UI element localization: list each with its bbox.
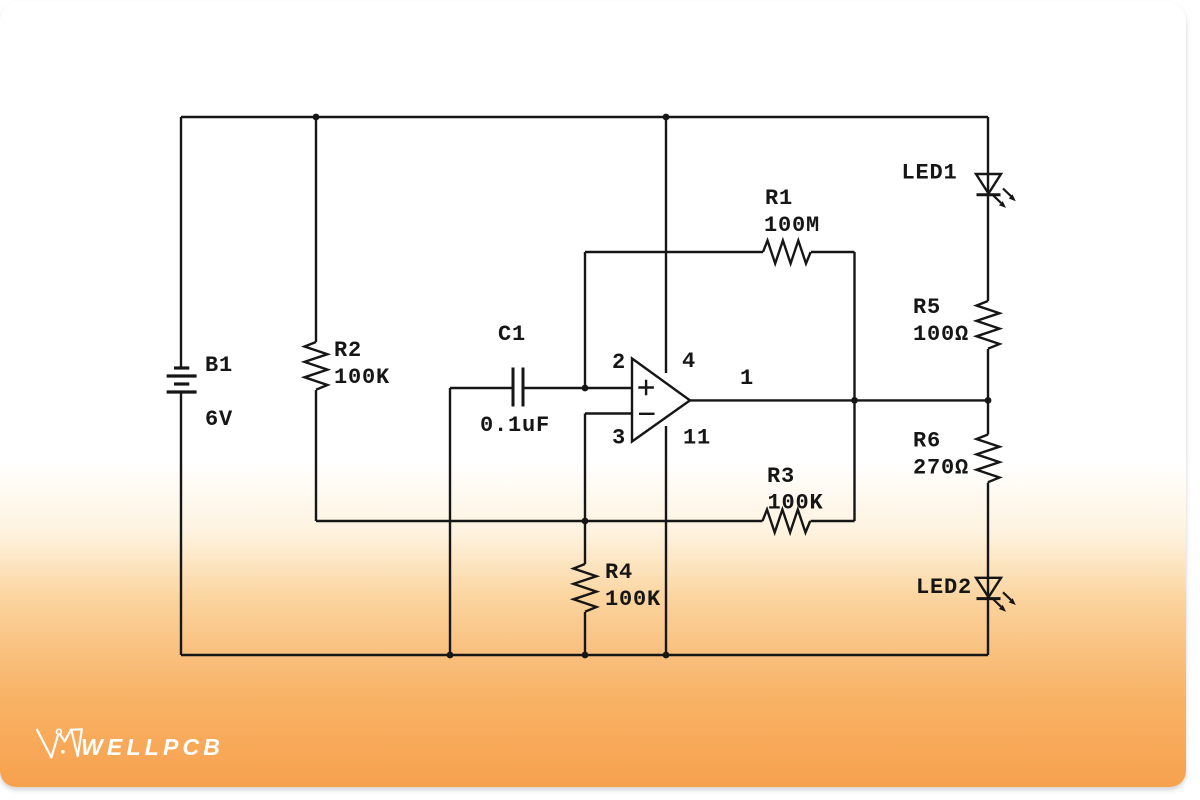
wire top rail [181, 116, 988, 118]
resistor R1 zigzag [763, 241, 811, 264]
svg-text:4: 4 [682, 349, 696, 374]
svg-text:3: 3 [612, 426, 626, 451]
resistor R2 zigzag [305, 342, 328, 390]
LED1 triangle [976, 174, 1001, 194]
svg-text:0.1uF: 0.1uF [480, 413, 550, 438]
wire minus input [585, 412, 632, 414]
wire right rail upper (through LED1) [987, 117, 989, 301]
wire output [690, 399, 988, 401]
svg-text:B1: B1 [205, 353, 233, 378]
svg-text:R2: R2 [334, 338, 362, 363]
wire right rail lower (through LED2) [987, 483, 989, 656]
resistor R6 zigzag [977, 435, 1000, 483]
junction plus input node [582, 385, 589, 392]
svg-text:R6: R6 [913, 429, 941, 454]
svg-text:WELLPCB: WELLPCB [81, 734, 224, 760]
wire op-amp pin 11 supply [665, 426, 667, 655]
junction top rail R2 [313, 114, 320, 121]
wire minus input vertical [584, 414, 586, 522]
wire R2 top [315, 117, 317, 342]
battery B1 plates [167, 368, 197, 392]
wire bottom rail [181, 654, 988, 656]
svg-text:1: 1 [740, 366, 754, 391]
op-amp minus sign [639, 413, 655, 415]
svg-text:2: 2 [612, 350, 626, 375]
svg-text:100K: 100K [605, 587, 661, 612]
junction output feedback [851, 397, 858, 404]
svg-text:100K: 100K [334, 365, 390, 390]
wire C1 right to plus input [523, 387, 632, 389]
LED2 arrows [993, 592, 1016, 611]
svg-text:R3: R3 [767, 464, 795, 489]
junction bottom rail R4 [582, 652, 589, 659]
svg-text:R4: R4 [605, 560, 633, 585]
wire R1 left (feedback top) [585, 251, 763, 253]
junction output right rail [985, 397, 992, 404]
wire C1 left vertical down [449, 388, 451, 655]
wire C1 left [450, 387, 513, 389]
svg-text:R5: R5 [913, 295, 941, 320]
wire R3 right to vertical [811, 520, 855, 522]
svg-text:100M: 100M [764, 213, 820, 238]
LED2 triangle [976, 578, 1001, 598]
resistor R5 zigzag [977, 301, 1000, 349]
svg-text:C1: C1 [498, 322, 526, 347]
svg-text:6V: 6V [205, 407, 233, 432]
op-amp plus sign [638, 380, 654, 396]
svg-text:270Ω: 270Ω [913, 456, 969, 481]
capacitor C1 plates [513, 368, 523, 407]
wire right rail middle [987, 349, 989, 435]
wire left rail lower [180, 392, 182, 655]
svg-text:11: 11 [683, 426, 711, 451]
logo dot [61, 750, 65, 754]
wire lower horizontal (R2 to R3) [316, 520, 763, 522]
junction bottom rail C1 [447, 652, 454, 659]
wire left rail upper [180, 117, 182, 368]
svg-text:R1: R1 [765, 186, 793, 211]
LED2 cathode bar [977, 597, 1001, 600]
wire op-amp pin 4 supply [665, 117, 667, 373]
wire R2 bottom [315, 390, 317, 521]
LED1 cathode bar [977, 193, 1001, 196]
op-amp U1 triangle [632, 359, 690, 442]
junction minus node lower wire [582, 518, 589, 525]
svg-text:100Ω: 100Ω [913, 322, 969, 347]
svg-text:LED1: LED1 [902, 161, 958, 186]
resistor R4 zigzag [574, 564, 597, 612]
wire R4 top [584, 521, 586, 564]
wire R1 right [811, 251, 855, 253]
svg-text:LED2: LED2 [916, 575, 972, 600]
LED1 arrows [993, 189, 1016, 208]
wire right feedback vertical [853, 252, 855, 521]
resistor R3 zigzag [763, 510, 811, 533]
wire R4 bottom [584, 612, 586, 655]
junction bottom rail pin11 [663, 652, 670, 659]
svg-text:100K: 100K [768, 491, 824, 516]
logo mark W [37, 729, 82, 757]
wire feedback down to plus node [584, 252, 586, 388]
junction top rail pin4 [663, 114, 670, 121]
